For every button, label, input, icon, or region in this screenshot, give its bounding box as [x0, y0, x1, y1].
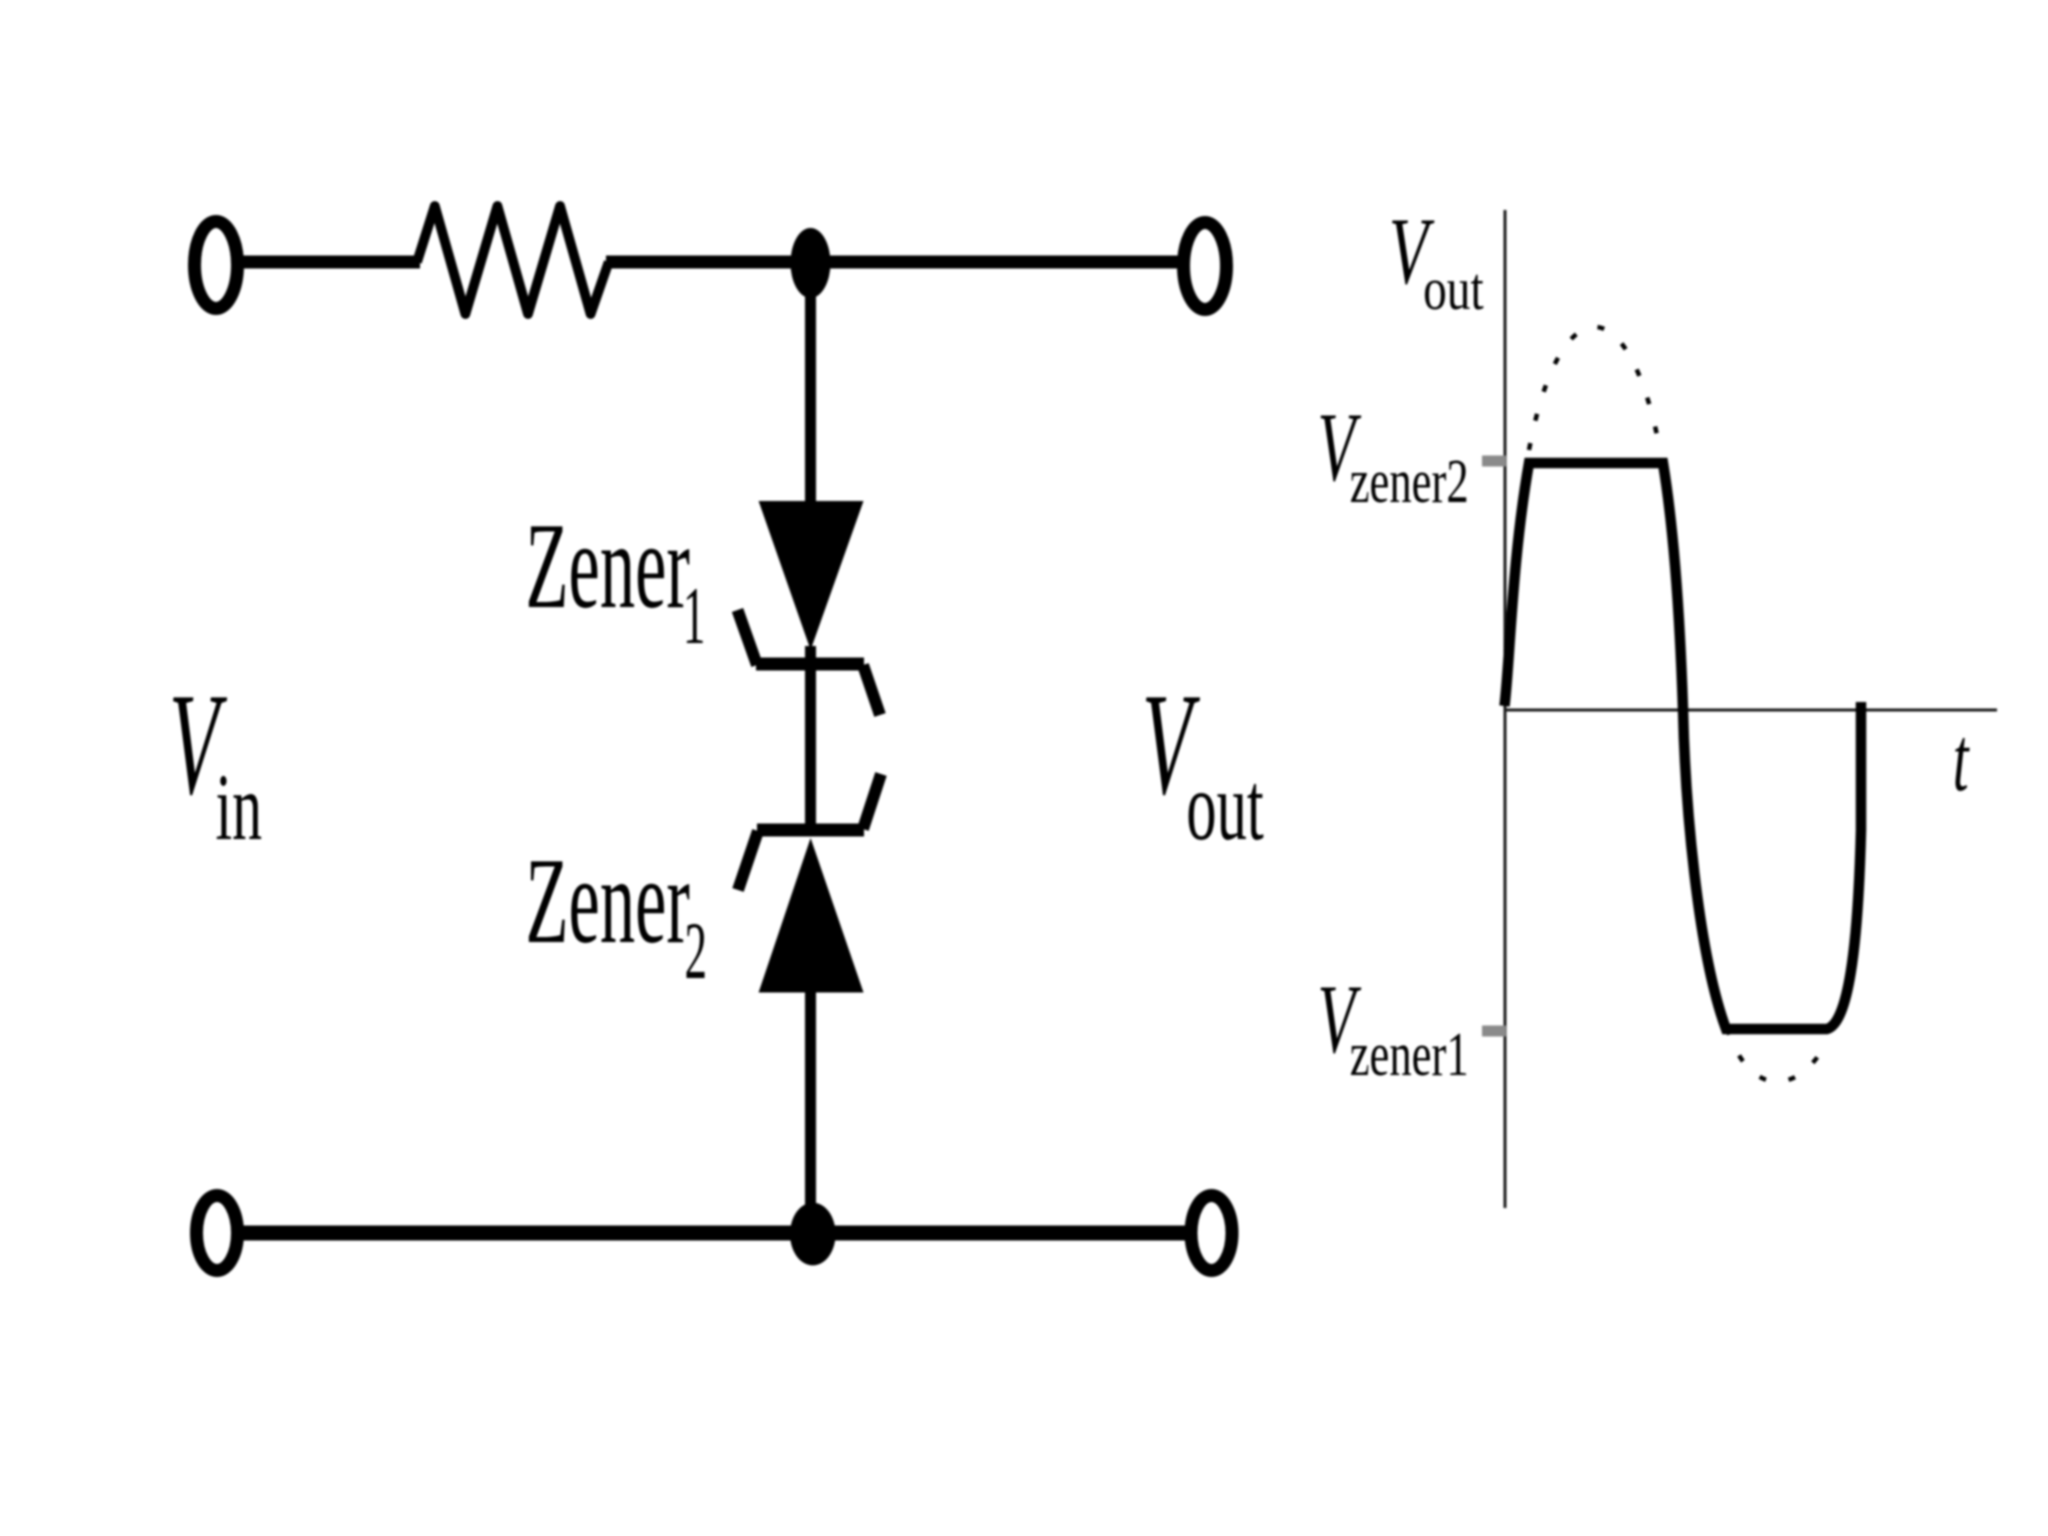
node A junction dot: [791, 228, 831, 298]
wire input to resistor: [243, 256, 420, 269]
node B junction dot: [790, 1203, 836, 1266]
svg-text:zener2: zener2: [1350, 447, 1469, 516]
tick Vzener2 level: [1482, 456, 1506, 467]
svg-text:Zener: Zener: [526, 498, 690, 634]
label t axis: [1953, 708, 1970, 810]
label Zener1: [526, 498, 706, 662]
graph t axis: [1504, 709, 1997, 712]
ground terminal bottom-right: [1191, 1196, 1232, 1271]
svg-text:out: out: [1423, 256, 1484, 323]
label Vin: [169, 662, 262, 860]
wire zener D2 down to node B: [805, 988, 816, 1235]
svg-text:in: in: [216, 755, 263, 860]
svg-text:Zener: Zener: [526, 833, 690, 969]
svg-text:zener1: zener1: [1350, 1020, 1469, 1089]
wire node A to output terminal: [810, 256, 1180, 269]
svg-text:t: t: [1953, 708, 1970, 810]
wire node A down to zener D1: [805, 263, 816, 505]
tick Vzener1 level: [1482, 1026, 1506, 1037]
svg-text:2: 2: [685, 906, 708, 996]
label Vzener2: [1317, 391, 1468, 515]
clipped output waveform: [1505, 463, 1862, 1029]
dashed unclipped sine peak top: [1529, 327, 1661, 455]
dashed unclipped sine peak bottom: [1727, 1028, 1828, 1082]
wire resistor to node A: [606, 256, 812, 269]
graph V axis: [1504, 210, 1507, 1208]
zener diode D2 (Zener2): [738, 774, 881, 993]
bottom wire: [243, 1226, 1186, 1241]
wire between zeners: [805, 646, 816, 836]
input terminal top-left: [195, 222, 238, 309]
svg-text:1: 1: [683, 571, 706, 661]
label Vout (circuit): [1142, 662, 1264, 860]
zener diode D1 (Zener1): [738, 501, 881, 715]
resistor R: [417, 206, 609, 314]
label Zener2: [526, 833, 708, 997]
label Vzener1: [1317, 963, 1468, 1088]
output terminal top-right: [1184, 223, 1227, 310]
ground terminal bottom-left: [197, 1196, 238, 1271]
label Vout (graph): [1389, 199, 1484, 323]
svg-text:out: out: [1186, 754, 1263, 861]
